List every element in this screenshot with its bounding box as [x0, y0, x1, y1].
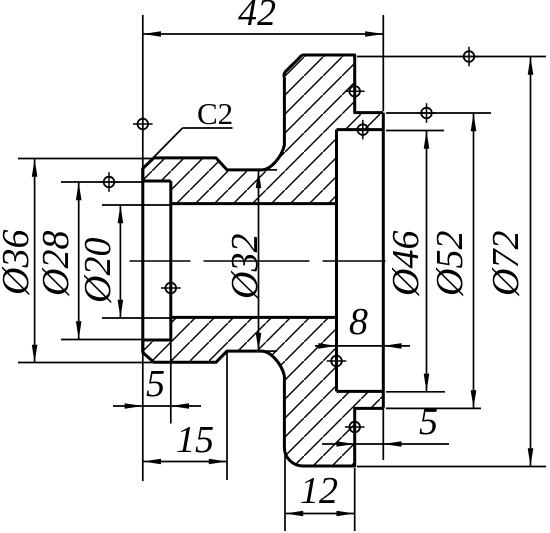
dim d46 ext top: [386, 130, 444, 132]
dim 12 line: [285, 513, 355, 515]
node marker 42 ext: [133, 114, 153, 134]
dim d36 arrow bottom: [32, 345, 38, 363]
svg-text:Ø28: Ø28: [35, 231, 77, 297]
counterbore wall: [169, 181, 172, 340]
dim 5 left arrow a: [125, 403, 143, 409]
dim 15 arrow right: [209, 459, 227, 465]
dim 12 arrow right: [337, 511, 355, 517]
dim d46 line: [426, 131, 428, 392]
dim d32 line: [258, 170, 260, 351]
dim d36 arrow top: [32, 159, 38, 177]
dim 5 left arrow b: [171, 403, 189, 409]
dim 12 ext left: [284, 452, 286, 531]
dim 5 left line: [113, 405, 201, 407]
dim d36 line: [34, 159, 36, 364]
recess lower edge: [337, 390, 384, 393]
dim d36 ext bottom: [18, 362, 153, 364]
dim d52 arrow top: [471, 113, 477, 131]
dim 12 ext right: [354, 468, 356, 531]
dim d52 ext top: [386, 112, 491, 114]
dim 5 right line: [322, 443, 449, 445]
dim d46 arrow bottom: [424, 374, 430, 392]
dim d20 arrow top: [118, 205, 124, 223]
dim d46 ext bottom: [386, 391, 445, 393]
dim 8 line: [315, 345, 410, 347]
dim d28 arrow top: [76, 182, 82, 200]
dim 12 arrow left: [285, 511, 303, 517]
dim d20 ext bottom: [102, 317, 171, 319]
svg-text:Ø32: Ø32: [224, 234, 266, 300]
centerline axis: [130, 260, 386, 262]
svg-text:Ø20: Ø20: [77, 238, 119, 304]
dim d72 arrow bottom: [528, 448, 534, 466]
svg-text:5: 5: [146, 363, 165, 405]
dim d32 ext bottom tail: [261, 350, 277, 352]
dim 5 left ext: [170, 340, 172, 424]
counterbore bottom edge: [141, 339, 170, 342]
node marker counterbore wall: [161, 278, 181, 298]
dim d32 ext top tail: [261, 169, 277, 171]
dim 8 arrow right: [383, 343, 401, 349]
dim 42 arrow right: [365, 31, 383, 37]
svg-text:Ø52: Ø52: [429, 231, 471, 297]
dim d20 line: [119, 205, 121, 318]
dim d52 line: [473, 113, 475, 408]
dim 42 arrow left: [143, 31, 161, 37]
svg-text:Ø72: Ø72: [485, 231, 527, 297]
dim d52 arrow bottom: [471, 390, 477, 408]
svg-text:12: 12: [300, 470, 338, 512]
svg-text:5: 5: [419, 401, 438, 443]
dim d32 arrow bottom: [256, 333, 262, 351]
svg-text:Ø46: Ø46: [385, 231, 427, 297]
dim 15 ext right: [226, 351, 228, 480]
dim 5 right arrow a: [337, 441, 355, 447]
svg-text:Ø36: Ø36: [0, 230, 37, 296]
label C2 shelf: [183, 127, 233, 129]
dim d46 arrow top: [424, 131, 430, 149]
node marker flange face upper: [345, 82, 365, 102]
bore top edge: [171, 202, 337, 205]
node marker d28 ext: [99, 172, 119, 192]
left end face: [141, 169, 144, 353]
dim 42 ext right: [382, 15, 384, 111]
node marker d52 ext: [417, 103, 437, 123]
dim d72 ext bottom: [357, 466, 546, 468]
svg-text:42: 42: [238, 0, 276, 34]
dim d36 ext top: [18, 158, 153, 160]
dim d72 arrow top: [528, 57, 534, 75]
dim d20 ext top: [102, 204, 171, 206]
hatch lower section: [143, 317, 383, 466]
dim d72 ext top: [357, 56, 546, 58]
counterbore top edge: [141, 180, 170, 183]
svg-text:15: 15: [176, 419, 214, 461]
dim d72 line: [530, 57, 532, 467]
hatch upper section: [143, 55, 383, 204]
recess bottom wall: [335, 130, 338, 392]
outline upper profile: [143, 55, 383, 181]
node marker recess edge: [353, 120, 373, 140]
recess top edge: [337, 128, 384, 131]
dim 42 ext left: [142, 15, 144, 170]
dim 42 line: [143, 33, 383, 35]
dim d28 arrow bottom: [76, 321, 82, 339]
dim d52 ext bottom: [386, 407, 481, 409]
node marker recess wall: [327, 351, 347, 371]
dim 5 right ext: [382, 408, 384, 460]
node marker flange face lower: [345, 417, 365, 437]
node marker d72 ext: [459, 47, 479, 67]
dim d28 ext bottom: [61, 339, 143, 341]
dim 8 arrow left: [318, 343, 336, 349]
dim d20 arrow bottom: [118, 300, 124, 318]
dim 5 left face ext: [142, 353, 144, 482]
svg-text:8: 8: [349, 301, 368, 343]
dim d32 arrow top: [256, 170, 262, 188]
dim 15 arrow left: [143, 459, 161, 465]
outline lower profile: [143, 340, 383, 466]
label C2 leader: [149, 128, 183, 162]
dim 15 line: [143, 461, 227, 463]
dim d28 ext top: [61, 181, 143, 183]
svg-text:C2: C2: [197, 96, 233, 131]
dim d28 line: [78, 182, 80, 340]
boss right face: [382, 113, 385, 409]
bore bottom edge: [171, 316, 337, 319]
dim 5 right arrow b: [383, 441, 401, 447]
